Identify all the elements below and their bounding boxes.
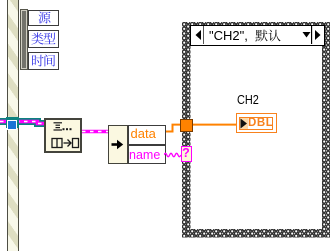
orange tunnel on case border [180, 119, 193, 132]
string wire: name -> case selector [164, 150, 182, 159]
unbundle element: name (string) [128, 145, 167, 164]
selector increment arrow [311, 26, 324, 44]
selector decrement arrow [192, 26, 205, 44]
case selector label box [190, 25, 325, 46]
selector text "CH2", [209, 29, 269, 43]
unbundle arrow [110, 139, 125, 150]
unbundle by name node (left column) [108, 125, 128, 165]
event data field: type (类型) [28, 30, 59, 49]
queue refnum wire (teal, magenta cluster core) [0, 114, 46, 132]
case selector terminal [?] [181, 146, 192, 162]
cluster wire (magenta dashed) [82, 128, 109, 135]
DBL indicator inner frame [239, 117, 273, 130]
selector text 默认 [255, 29, 268, 42]
unbundle element: data (DBL) [128, 125, 167, 146]
event structure border (hatched left edge) [7, 0, 19, 251]
case structure border (checkered bands) [182, 22, 331, 238]
event data node spine [20, 9, 29, 71]
CH2 indicator label [237, 93, 271, 106]
event data field: source (源) [28, 10, 59, 27]
blue terminal square on border [7, 120, 17, 130]
DBL triangle backdrop [240, 118, 248, 129]
selector dropdown arrow [302, 31, 311, 39]
dequeue element node [44, 118, 83, 153]
event data field: time (时间) [28, 52, 59, 70]
DBL indicator outer frame [236, 113, 277, 133]
DBL wire: data -> tunnel -> indicator [164, 120, 238, 136]
DBL text [248, 117, 274, 129]
DBL indicator input triangle [240, 118, 248, 129]
queue wire tunnel on event border [6, 117, 19, 128]
